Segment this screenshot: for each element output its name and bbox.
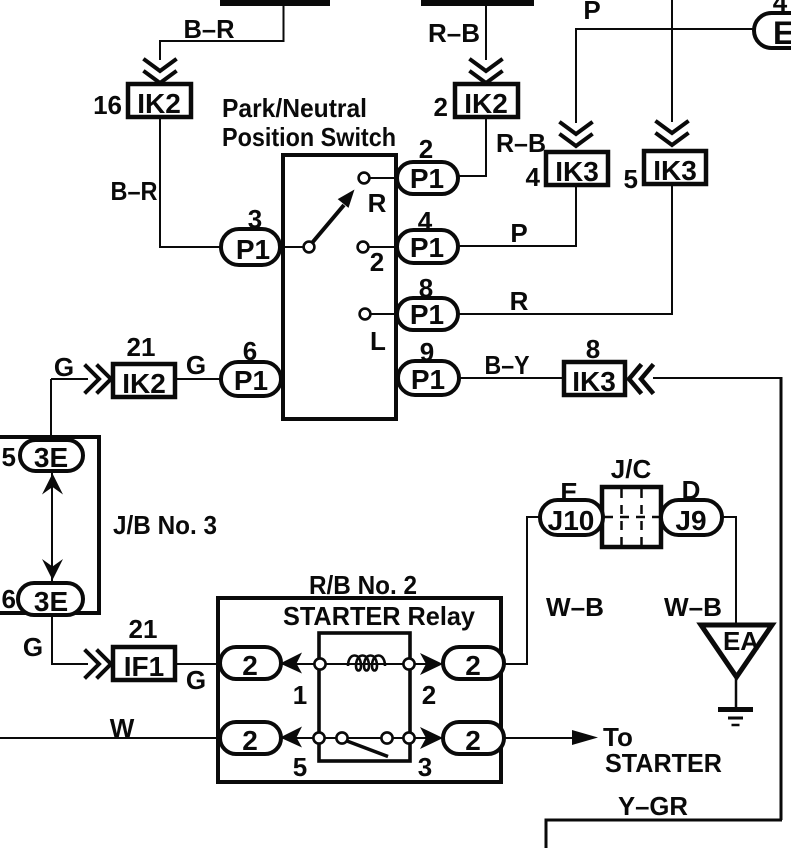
wire B-R from top connector to IK2 pin 16 [160, 4, 284, 60]
svg-text:IF1: IF1 [124, 651, 164, 682]
pin label 1 [293, 680, 307, 710]
connector 3E pin 6 [18, 583, 83, 617]
label W-B (left) [546, 592, 604, 622]
label To STARTER [603, 722, 722, 778]
svg-text:6: 6 [243, 336, 257, 366]
connector J9 pin D [661, 500, 722, 536]
label G (right of IF1) [186, 665, 206, 695]
connector P1 pin 6 [221, 362, 281, 396]
label J/C [611, 454, 652, 484]
relay connector 2 (coil left) [220, 647, 281, 681]
svg-text:3: 3 [248, 204, 262, 234]
svg-text:2: 2 [465, 725, 481, 756]
svg-text:W–B: W–B [664, 592, 722, 622]
wire G down to 3E 5 [50, 379, 52, 442]
svg-text:G: G [186, 665, 206, 695]
svg-text:2: 2 [422, 680, 436, 710]
svg-text:4: 4 [418, 206, 433, 236]
ground stem [735, 677, 738, 708]
connector IK3 pin 8 [564, 362, 625, 397]
title Park/Neutral Position Switch [222, 93, 396, 152]
svg-text:P1: P1 [410, 163, 444, 194]
wire W from left edge to relay 5 [0, 737, 220, 739]
label STARTER Relay [283, 601, 476, 631]
pin label 2 [434, 92, 448, 122]
connector block top-middle (cut off) [421, 0, 534, 6]
arrow into pin 1 (left, coil row) [280, 653, 302, 674]
svg-text:EA: EA [723, 626, 759, 656]
svg-text:G: G [23, 632, 43, 662]
relay contact circle (open) [381, 732, 392, 743]
junction block J/B No.3 box (cut at left) [0, 437, 99, 613]
svg-text:R–B: R–B [428, 18, 480, 48]
svg-text:P1: P1 [410, 299, 444, 330]
svg-text:P1: P1 [411, 364, 445, 395]
connector P1 pin 2 [397, 162, 458, 194]
svg-text:D: D [682, 475, 701, 505]
label G (bottom left) [23, 632, 43, 662]
relay terminal circle 3 (box edge) [403, 732, 414, 743]
switch contact 2 [358, 242, 369, 253]
pin label 9 [420, 337, 434, 367]
relay terminal circle 5 (box edge) [313, 732, 324, 743]
svg-text:P1: P1 [236, 234, 270, 265]
pin label 4 (E connector, cut) [773, 0, 788, 17]
junction connector J/C box [602, 487, 661, 547]
wire to starter [504, 737, 572, 739]
connector P1 pin 4 [397, 230, 458, 263]
pin label 3 [418, 752, 432, 782]
connector IK2 pin 2 [455, 84, 518, 119]
label B-Y [485, 350, 530, 380]
relay block R/B No.2 box [218, 598, 501, 782]
switch lever arrow [309, 190, 355, 247]
wire B-R from IK2 16 to P1 pin 3 [160, 117, 221, 247]
ground EA triangle [701, 625, 772, 677]
pin label E [560, 477, 577, 507]
svg-text:J10: J10 [548, 505, 595, 536]
svg-text:STARTER Relay: STARTER Relay [283, 601, 476, 631]
svg-text:IK2: IK2 [137, 88, 181, 119]
switch pivot contact [304, 242, 315, 253]
connector P1 pin 8 [397, 298, 458, 330]
pin label 5 [293, 752, 307, 782]
wire G from 3E 6 to IF1 [52, 613, 88, 664]
svg-text:8: 8 [419, 273, 433, 303]
svg-text:5: 5 [293, 752, 307, 782]
connector IK3 pin 4 [546, 152, 608, 187]
chevron arrow down into IK3 4 [561, 123, 591, 146]
wire G into IK2 21 [51, 378, 88, 380]
svg-text:J/C: J/C [611, 454, 652, 484]
connector P1 pin 3 [221, 229, 280, 265]
svg-text:8: 8 [586, 334, 600, 364]
pin label 6 [243, 336, 257, 366]
svg-text:Position Switch: Position Switch [222, 122, 396, 152]
wire R from IK3 5 to P1 pin 8 [458, 184, 672, 314]
label R-B (top) [428, 18, 480, 48]
label L (contact) [370, 326, 386, 356]
label Y-GR [618, 791, 688, 821]
arrow out pin 3 (right, contact row) [420, 727, 443, 749]
svg-text:P: P [510, 218, 527, 248]
svg-text:IK3: IK3 [572, 366, 616, 397]
pin label 6 [2, 584, 16, 614]
wire B-Y from P1 9 to IK3 8 [459, 377, 562, 379]
svg-text:21: 21 [129, 614, 158, 644]
wire pivot to P1 3 [280, 246, 303, 248]
switch contact R [359, 173, 370, 184]
label R-B (near IK3 4) [496, 128, 546, 158]
connector J10 pin E [540, 500, 603, 536]
arrow up (3E) [42, 474, 63, 495]
label B-R (top) [184, 14, 235, 44]
pin label 4 [526, 162, 541, 192]
relay connector 2 (coil right) [443, 647, 504, 681]
svg-text:5: 5 [624, 164, 638, 194]
starter relay inner box [319, 633, 410, 761]
wire G from IK2 21 to P1 6 [175, 378, 221, 380]
wire contact 2 to P1 4 [369, 246, 397, 248]
label G (middle) [186, 350, 206, 380]
label J/B No. 3 [113, 510, 217, 540]
pin label 8 [586, 334, 600, 364]
svg-text:6: 6 [2, 584, 16, 614]
svg-text:W: W [110, 713, 135, 743]
svg-text:2: 2 [465, 650, 481, 681]
label W-B (right) [664, 592, 722, 622]
connector P1 pin 9 [398, 361, 459, 395]
chevron arrow right into IF1 [86, 651, 111, 677]
svg-text:R: R [510, 286, 529, 316]
svg-text:STARTER: STARTER [605, 748, 722, 778]
wire contact R to P1 2 [370, 177, 397, 179]
pin label 5 [2, 442, 16, 472]
ground symbol [718, 710, 753, 726]
svg-text:5: 5 [2, 442, 16, 472]
svg-text:2: 2 [434, 92, 448, 122]
wire down to IK3 5 [671, 0, 673, 122]
park/neutral switch box [283, 155, 396, 419]
svg-text:9: 9 [420, 337, 434, 367]
svg-text:3E: 3E [34, 586, 68, 617]
connector 3E pin 5 [20, 440, 83, 473]
svg-text:P1: P1 [234, 365, 268, 396]
svg-text:IK2: IK2 [464, 88, 508, 119]
relay terminal circle 2 [403, 658, 414, 669]
relay contact circle (blade pivot) [336, 732, 347, 743]
relay terminal circle 1 [314, 658, 325, 669]
connector IK2 pin 16 [128, 84, 191, 119]
svg-text:L: L [370, 326, 386, 356]
relay connector 2 (contact left) [220, 722, 281, 756]
pin label 4 [418, 206, 433, 236]
connector IK2 pin 21 [113, 364, 175, 399]
wire from IK2 2 to P1 pin 2 [458, 117, 486, 176]
wire from IF1 to relay 2 [175, 663, 221, 665]
svg-text:B–R: B–R [111, 176, 158, 206]
chevron arrow down into IK2 16 [145, 60, 175, 83]
svg-text:J/B No. 3: J/B No. 3 [113, 510, 217, 540]
wire relay coil row [281, 663, 443, 665]
chevron arrow down into IK2 2 [471, 60, 501, 83]
svg-text:E: E [773, 15, 791, 51]
svg-text:R/B No. 2: R/B No. 2 [309, 570, 417, 600]
svg-text:IK3: IK3 [653, 155, 697, 186]
pin label 2 [419, 134, 433, 164]
svg-text:P1: P1 [410, 232, 444, 263]
label R (wire) [510, 286, 529, 316]
relay switch blade [343, 740, 388, 757]
label W [110, 713, 135, 743]
svg-text:2: 2 [242, 650, 258, 681]
wire between 3E 5 and 3E 6 [51, 471, 53, 583]
relay coil [348, 656, 385, 671]
svg-text:G: G [186, 350, 206, 380]
label P [510, 218, 527, 248]
svg-text:IK2: IK2 [122, 368, 166, 399]
arrow to starter [572, 730, 598, 745]
pin label 8 [419, 273, 433, 303]
switch contact L [360, 309, 371, 320]
svg-text:2: 2 [242, 725, 258, 756]
svg-text:2: 2 [419, 134, 433, 164]
label G (left) [54, 352, 74, 382]
wire from IK3 8 right and down to Y-GR run [653, 377, 781, 379]
svg-text:B–R: B–R [184, 14, 235, 44]
svg-text:3: 3 [418, 752, 432, 782]
chevron arrow right into IK2 21 [86, 366, 111, 392]
svg-text:P: P [583, 0, 600, 25]
wire R-B from top connector to IK2 pin 2 [485, 4, 487, 60]
wire contact L to P1 8 [371, 313, 397, 315]
svg-text:E: E [560, 477, 577, 507]
arrow down (3E) [42, 559, 63, 580]
svg-text:IK3: IK3 [555, 156, 599, 187]
pin label D [682, 475, 701, 505]
svg-text:B–Y: B–Y [485, 350, 530, 380]
svg-text:G: G [54, 352, 74, 382]
svg-text:R–B: R–B [496, 128, 546, 158]
arrow into pin 5 (left, contact row) [280, 727, 302, 748]
wire P from E connector down to IK3 4 [576, 29, 754, 123]
connector block top-left (cut off) [220, 0, 330, 6]
svg-text:Y–GR: Y–GR [618, 791, 688, 821]
pin label 16 [93, 90, 122, 120]
svg-text:W–B: W–B [546, 592, 604, 622]
connector IF1 pin 21 [113, 647, 175, 682]
label P (top) [583, 0, 600, 25]
svg-text:16: 16 [93, 90, 122, 120]
relay connector 2 (contact right) [443, 722, 504, 756]
svg-text:1: 1 [293, 680, 307, 710]
svg-text:3E: 3E [34, 442, 68, 473]
chevron arrow down into IK3 5 [657, 122, 687, 145]
svg-text:4: 4 [526, 162, 541, 192]
wire relay contact row [281, 737, 443, 739]
svg-text:Park/Neutral: Park/Neutral [222, 93, 367, 123]
pin label 21 [127, 332, 156, 362]
connector IK3 pin 5 [644, 151, 706, 186]
wire from J9 down to EA ground [722, 517, 736, 625]
label R/B No. 2 [309, 570, 417, 600]
label R (contact) [368, 188, 387, 218]
label 2 (contact) [370, 247, 384, 277]
pin label 21 [129, 614, 158, 644]
pin label 5 [624, 164, 638, 194]
label B-R (left) [111, 176, 158, 206]
arrow out pin 2 (right, coil row) [420, 653, 443, 675]
wire from relay 2 up to J10 [504, 517, 540, 664]
pin label 3 [248, 204, 262, 234]
svg-text:J9: J9 [675, 505, 706, 536]
wire P from IK3 4 to P1 pin 4 [458, 185, 576, 246]
svg-text:2: 2 [370, 247, 384, 277]
connector E (cut at right edge) [754, 13, 791, 51]
chevron arrow left out of IK3 8 [629, 366, 652, 392]
svg-text:21: 21 [127, 332, 156, 362]
svg-text:R: R [368, 188, 387, 218]
pin label 2 [422, 680, 436, 710]
